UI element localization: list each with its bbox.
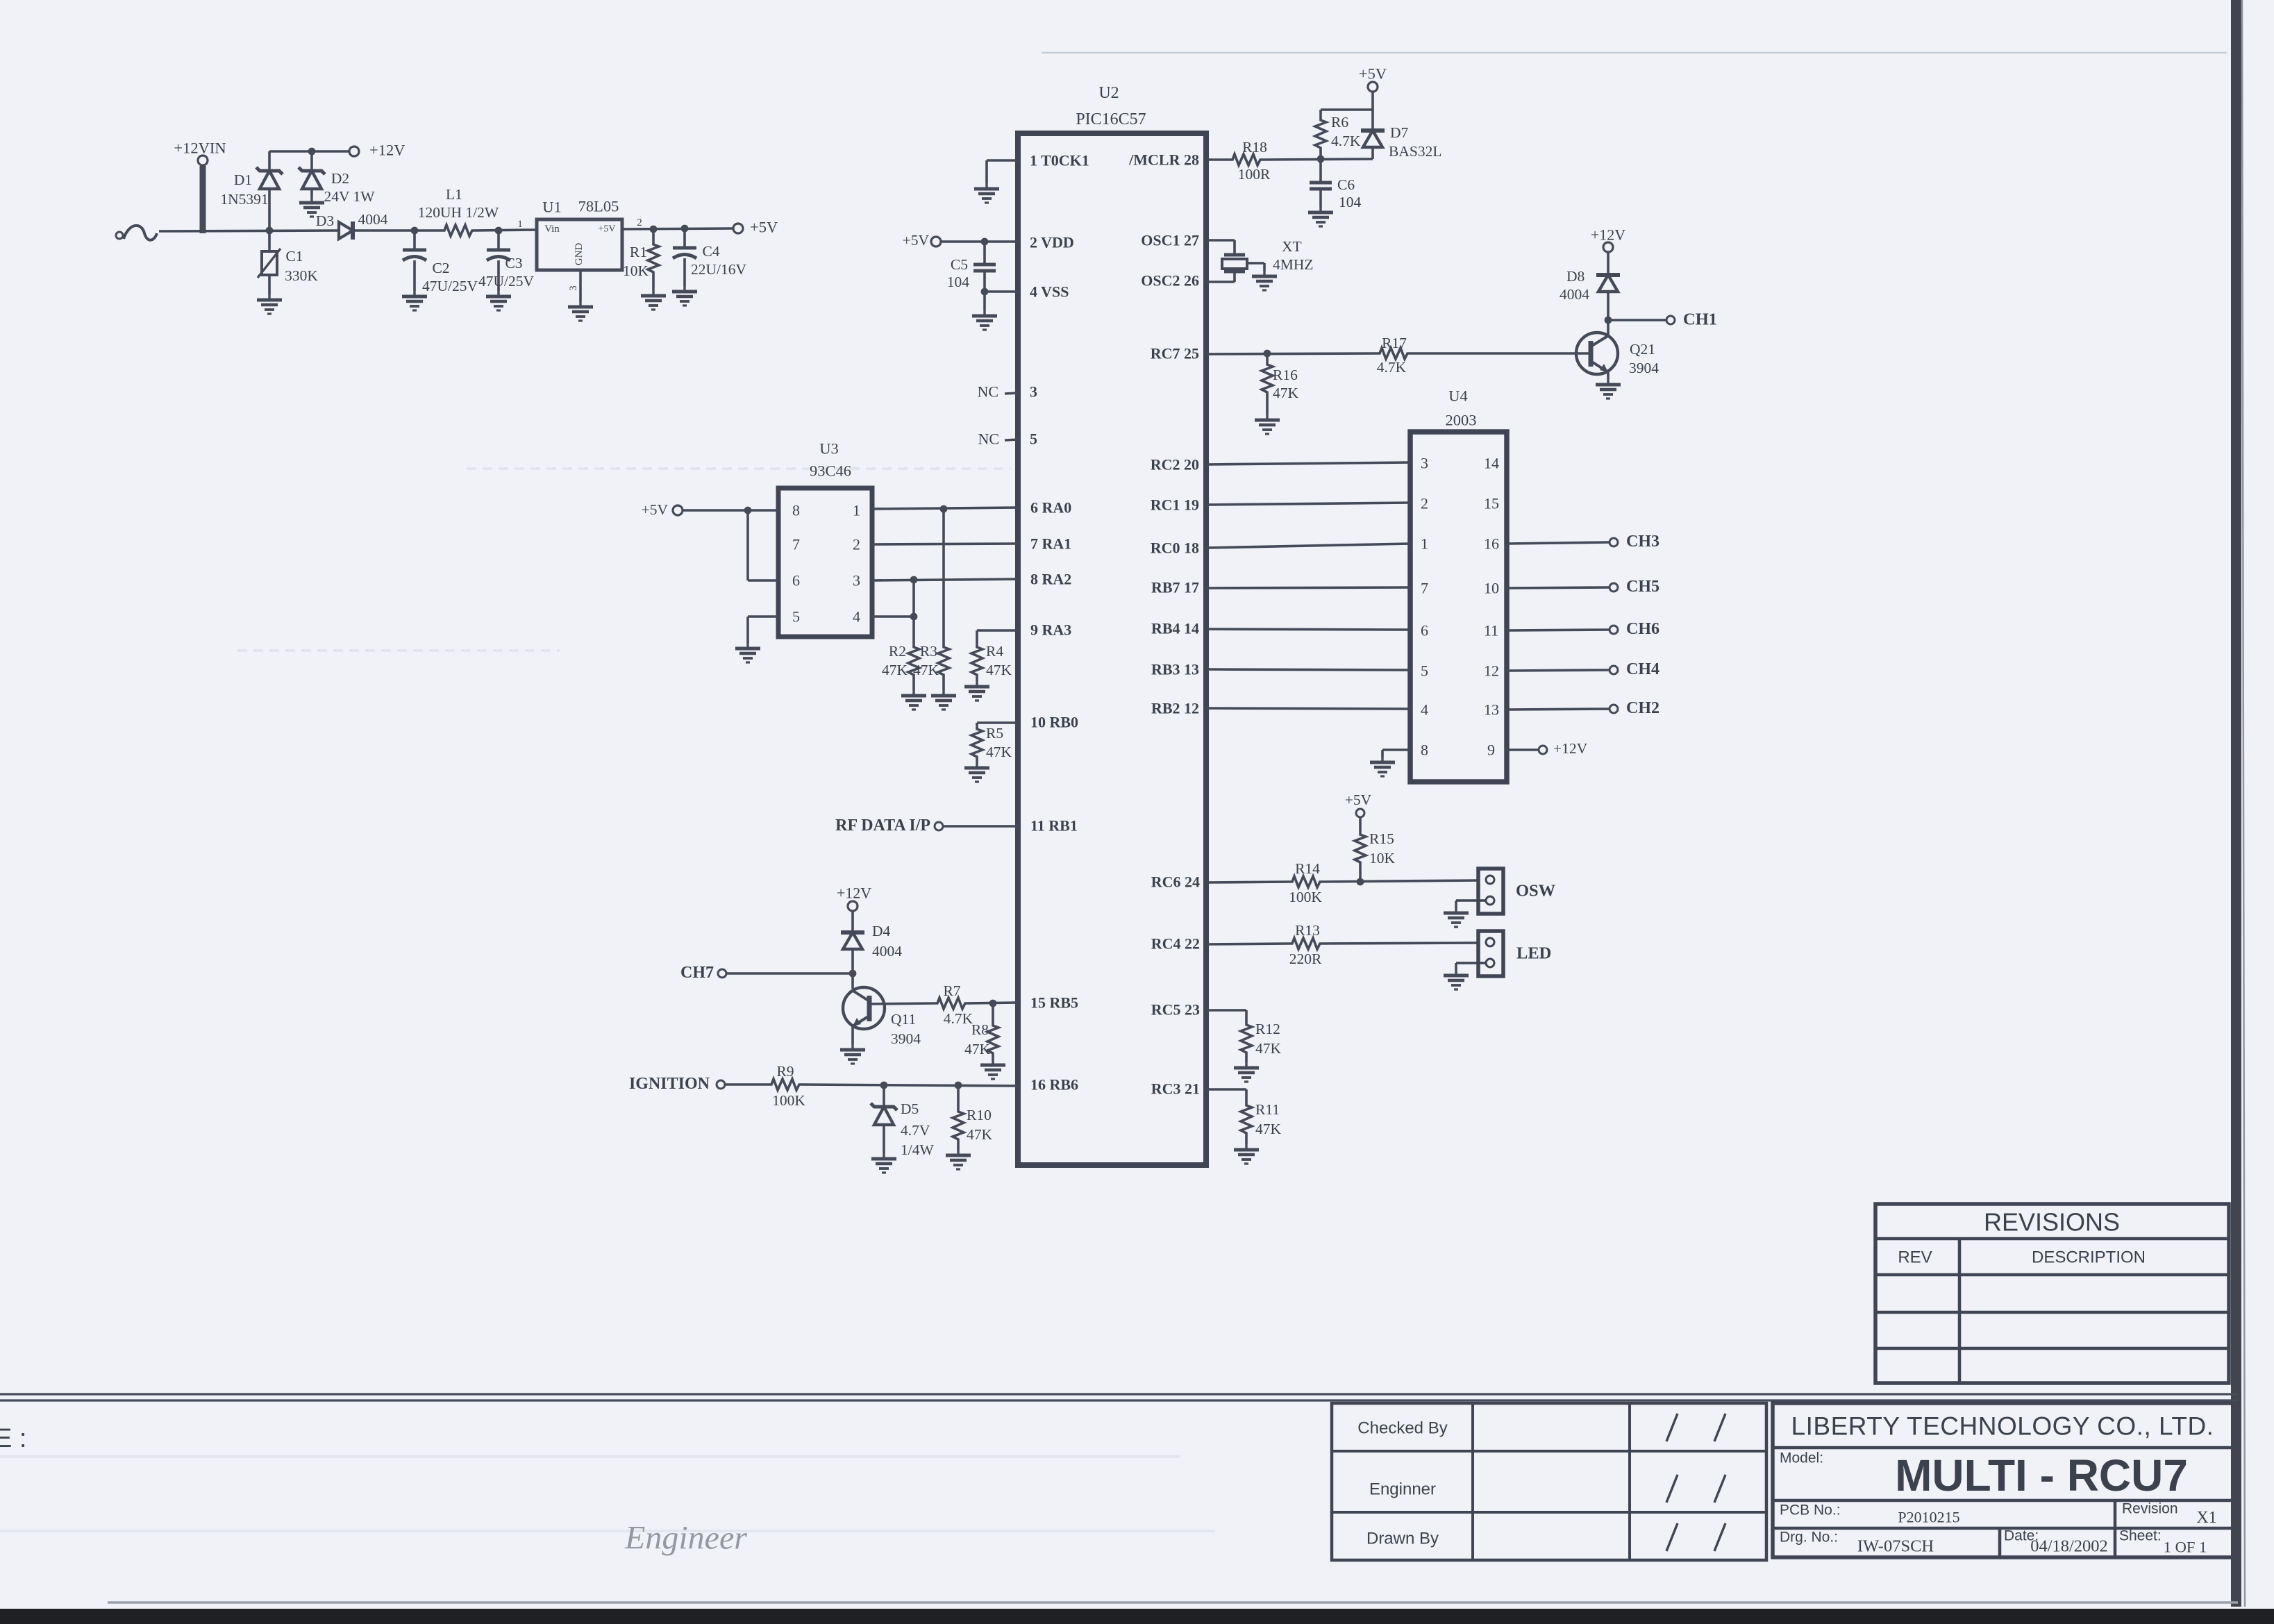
svg-text:+5V: +5V bbox=[903, 232, 930, 249]
svg-text:PCB No.:: PCB No.: bbox=[1780, 1502, 1841, 1518]
svg-text:R6: R6 bbox=[1331, 114, 1348, 131]
svg-text:RC3 21: RC3 21 bbox=[1151, 1080, 1200, 1098]
svg-text:120UH 1/2W: 120UH 1/2W bbox=[418, 204, 499, 221]
svg-text:Drg. No.:: Drg. No.: bbox=[1780, 1530, 1838, 1546]
wire +5V down bbox=[1371, 92, 1374, 131]
node R8 junction bbox=[989, 1000, 997, 1007]
wire MCLR to R18 bbox=[1206, 158, 1230, 161]
svg-text:REV: REV bbox=[1898, 1248, 1932, 1267]
ground R5 bbox=[964, 762, 989, 782]
svg-text:PIC16C57: PIC16C57 bbox=[1076, 110, 1146, 128]
svg-text:E :: E : bbox=[0, 1424, 26, 1453]
ground R12 bbox=[1234, 1062, 1259, 1082]
svg-text:1: 1 bbox=[1421, 535, 1428, 553]
svg-text:IGNITION: IGNITION bbox=[629, 1075, 710, 1093]
ground XT bbox=[1252, 271, 1277, 290]
ground U3 pin5 bbox=[735, 643, 760, 662]
resistor R17 4.7K bbox=[1377, 335, 1410, 376]
svg-text:04/18/2002: 04/18/2002 bbox=[2030, 1537, 2108, 1556]
resistor R6 4.7K bbox=[1315, 110, 1361, 159]
wire U3 pin4 to R2 bbox=[872, 615, 914, 618]
svg-text:10K: 10K bbox=[1369, 850, 1396, 867]
varistor C1 330K bbox=[258, 231, 281, 294]
svg-text:8: 8 bbox=[1421, 742, 1428, 759]
svg-text:16 RB6: 16 RB6 bbox=[1030, 1076, 1078, 1094]
node R16 junction bbox=[1264, 350, 1271, 358]
inductor L1 120UH 1/2W bbox=[418, 186, 499, 236]
svg-text:3: 3 bbox=[853, 572, 860, 589]
node +5V terminal (U3) bbox=[673, 505, 683, 515]
svg-text:1: 1 bbox=[517, 219, 523, 230]
resistor R10 47K bbox=[953, 1085, 993, 1150]
node +12V terminal (U4 pin9) bbox=[1539, 746, 1547, 754]
svg-text:MULTI - RCU7: MULTI - RCU7 bbox=[1895, 1450, 2188, 1500]
wire pin5 to ground bbox=[748, 617, 778, 643]
wire RC1 to U4 pin2 bbox=[1206, 503, 1410, 505]
diode D4 4004 bbox=[841, 911, 902, 989]
svg-text:14: 14 bbox=[1484, 455, 1499, 472]
wire CH7 to collector bbox=[726, 972, 853, 975]
resistor R4 47K bbox=[971, 630, 1012, 681]
svg-text:R12: R12 bbox=[1255, 1021, 1280, 1037]
svg-text:OSC2 26: OSC2 26 bbox=[1141, 272, 1199, 290]
svg-text:C1: C1 bbox=[285, 248, 303, 265]
svg-text:4.7K: 4.7K bbox=[944, 1010, 973, 1027]
svg-text:LIBERTY TECHNOLOGY CO., LTD.: LIBERTY TECHNOLOGY CO., LTD. bbox=[1791, 1412, 2214, 1441]
node pin4 junction bbox=[910, 613, 918, 621]
ground U4 pin8 bbox=[1370, 757, 1395, 776]
svg-text:2: 2 bbox=[1421, 495, 1428, 512]
svg-text:93C46: 93C46 bbox=[810, 462, 851, 480]
svg-text:9 RA3: 9 RA3 bbox=[1030, 621, 1071, 639]
svg-text:CH2: CH2 bbox=[1626, 699, 1659, 717]
svg-text:3904: 3904 bbox=[891, 1030, 921, 1047]
svg-text:R13: R13 bbox=[1295, 922, 1320, 939]
svg-text:47U/25V: 47U/25V bbox=[422, 278, 478, 294]
svg-text:47K: 47K bbox=[1255, 1121, 1282, 1137]
wire RC0 to U4 pin1 bbox=[1206, 544, 1410, 548]
ground R11 bbox=[1234, 1144, 1259, 1164]
left signature table bbox=[1332, 1403, 1766, 1560]
svg-text:+12V: +12V bbox=[369, 142, 405, 159]
svg-text:4004: 4004 bbox=[1560, 286, 1589, 303]
svg-text:R17: R17 bbox=[1382, 335, 1407, 351]
svg-text:D7: D7 bbox=[1390, 124, 1409, 141]
svg-text:220R: 220R bbox=[1289, 951, 1322, 967]
svg-text:+5V: +5V bbox=[750, 219, 778, 236]
ground C3 bbox=[486, 291, 511, 310]
node +5V terminal (R15) bbox=[1356, 809, 1364, 817]
svg-text:+5V: +5V bbox=[642, 501, 669, 518]
pin 9 RA3 stub bbox=[977, 621, 1071, 639]
svg-text:47U/25V: 47U/25V bbox=[478, 273, 535, 290]
node C4 junction bbox=[681, 225, 689, 233]
svg-text:R15: R15 bbox=[1369, 830, 1394, 847]
svg-text:+12V: +12V bbox=[837, 885, 871, 902]
svg-text:OSW: OSW bbox=[1516, 882, 1556, 901]
resistor R11 47K bbox=[1241, 1101, 1282, 1144]
capacitor C6 104 bbox=[1310, 159, 1362, 210]
svg-text:6: 6 bbox=[792, 572, 800, 589]
ground R10 bbox=[946, 1150, 971, 1169]
svg-text:U4: U4 bbox=[1448, 387, 1468, 405]
diode D2 24V 1W (zener) bbox=[299, 151, 375, 205]
svg-text:+12V: +12V bbox=[1553, 740, 1588, 757]
connector OSW bbox=[1456, 869, 1503, 914]
ground C1 bbox=[257, 294, 282, 314]
node VSS junction bbox=[981, 288, 989, 296]
regulator U1 78L05 bbox=[517, 198, 642, 291]
pin 26 OSC2 bbox=[1141, 271, 1235, 290]
svg-text:8 RA2: 8 RA2 bbox=[1030, 571, 1071, 588]
resistor R1 10K bbox=[623, 229, 659, 290]
svg-text:47K: 47K bbox=[986, 744, 1012, 760]
svg-text:3: 3 bbox=[1421, 455, 1428, 472]
ground R1 bbox=[641, 290, 666, 310]
node R3 top junction bbox=[940, 505, 948, 513]
svg-text:D3: D3 bbox=[316, 212, 334, 229]
wire CH3 bbox=[1507, 542, 1609, 544]
node U3 supply junction bbox=[744, 507, 752, 514]
svg-text:15: 15 bbox=[1484, 495, 1499, 512]
GHOST BLEED-THROUGH MARKS bbox=[0, 469, 1215, 1557]
ground Q11 emitter bbox=[840, 1044, 865, 1064]
node CH2 terminal bbox=[1610, 705, 1618, 713]
svg-text:R11: R11 bbox=[1255, 1101, 1280, 1118]
svg-text:104: 104 bbox=[1339, 194, 1362, 210]
svg-text:Engineer: Engineer bbox=[624, 1520, 747, 1557]
svg-text:3: 3 bbox=[568, 285, 579, 291]
svg-text:11: 11 bbox=[1484, 622, 1498, 639]
svg-text:D2: D2 bbox=[331, 170, 349, 187]
svg-text:24V 1W: 24V 1W bbox=[324, 188, 375, 205]
node main rail / D1 junction bbox=[266, 227, 274, 235]
svg-text:RC1 19: RC1 19 bbox=[1151, 496, 1199, 514]
svg-text:RC7 25: RC7 25 bbox=[1151, 345, 1199, 362]
svg-text:RB2 12: RB2 12 bbox=[1151, 700, 1199, 717]
svg-text:C5: C5 bbox=[951, 256, 968, 273]
diode D3 4004 bbox=[339, 221, 353, 240]
node R1 junction bbox=[650, 226, 658, 233]
svg-text:DESCRIPTION: DESCRIPTION bbox=[2032, 1248, 2146, 1267]
wire rail D3 to U1 bbox=[353, 229, 442, 232]
svg-text:1: 1 bbox=[853, 502, 860, 519]
node R6/C6 junction bbox=[1317, 156, 1325, 163]
resistor R7 4.7K bbox=[935, 982, 973, 1027]
diode D7 BAS32L bbox=[1361, 124, 1441, 160]
wire L1 to U1 bbox=[474, 230, 537, 231]
node R10 junction bbox=[955, 1082, 962, 1089]
svg-text:R4: R4 bbox=[986, 643, 1003, 660]
node R15/R14 junction bbox=[1357, 878, 1364, 886]
svg-text:RB3 13: RB3 13 bbox=[1151, 661, 1199, 678]
node CH1 junction bbox=[1605, 317, 1612, 324]
svg-text:10 RB0: 10 RB0 bbox=[1030, 714, 1078, 731]
node +5V terminal (VDD) bbox=[931, 237, 941, 246]
svg-text:4004: 4004 bbox=[872, 943, 902, 960]
svg-text:16: 16 bbox=[1484, 535, 1499, 553]
svg-text:NC: NC bbox=[977, 383, 998, 401]
svg-text:P2010215: P2010215 bbox=[1898, 1509, 1959, 1526]
svg-text:U2: U2 bbox=[1098, 84, 1119, 102]
capacitor C4 22U/16V bbox=[673, 228, 746, 286]
resistor R16 47K bbox=[1262, 353, 1299, 415]
ground LED bbox=[1444, 970, 1469, 989]
transistor Q11 3904 bbox=[843, 987, 885, 1044]
wire U3 pin3 to RA2 bbox=[872, 579, 1018, 580]
svg-text:+5V: +5V bbox=[1345, 792, 1372, 808]
svg-text:Q21: Q21 bbox=[1630, 341, 1655, 358]
SHEET BORDER (title strip top, double line) bbox=[0, 1394, 2238, 1400]
wire RB4 to U4 pin6 bbox=[1206, 629, 1410, 630]
node CH7/D4 junction bbox=[849, 970, 857, 978]
pin 4 VSS bbox=[985, 283, 1069, 311]
transistor Q21 3904 bbox=[1576, 320, 1618, 379]
node CH6 terminal bbox=[1610, 626, 1618, 634]
node C2 junction bbox=[411, 227, 419, 235]
input lead curl bbox=[116, 226, 157, 240]
svg-text:RC2 20: RC2 20 bbox=[1151, 456, 1199, 474]
resistor R14 100K bbox=[1289, 860, 1322, 905]
wire R18 to node bbox=[1262, 159, 1373, 160]
ground Q21 emitter bbox=[1596, 379, 1621, 399]
ground pin1 bbox=[974, 183, 999, 203]
wire U1 output rail bbox=[622, 228, 733, 229]
svg-text:XT: XT bbox=[1282, 238, 1302, 255]
svg-text:Model:: Model: bbox=[1780, 1450, 1823, 1466]
connector LED bbox=[1456, 931, 1503, 976]
svg-text:RC6 24: RC6 24 bbox=[1151, 873, 1200, 891]
svg-text:CH4: CH4 bbox=[1626, 660, 1659, 678]
svg-text:330K: 330K bbox=[285, 267, 318, 284]
svg-text:5: 5 bbox=[1421, 662, 1428, 680]
svg-text:R3: R3 bbox=[920, 643, 937, 660]
ground R16 bbox=[1255, 415, 1280, 434]
diode D1 1N5391 (zener) bbox=[220, 151, 283, 231]
svg-text:X1: X1 bbox=[2196, 1509, 2216, 1527]
pin 5 NC bbox=[978, 430, 1037, 448]
wire RC2 to U4 pin3 bbox=[1206, 462, 1410, 464]
capacitor C2 47U/25V bbox=[403, 231, 478, 294]
svg-text:RC5 23: RC5 23 bbox=[1151, 1001, 1200, 1019]
resistor R9 100K bbox=[769, 1063, 805, 1109]
svg-text:R18: R18 bbox=[1242, 139, 1267, 156]
svg-text:6 RA0: 6 RA0 bbox=[1030, 499, 1071, 517]
svg-text:CH1: CH1 bbox=[1683, 310, 1717, 329]
wire R17 to Q21 base bbox=[1410, 352, 1591, 355]
svg-text:4.7K: 4.7K bbox=[1331, 133, 1361, 149]
wire RF DATA to RB1 bbox=[943, 825, 1018, 828]
svg-text:REVISIONS: REVISIONS bbox=[1984, 1208, 2120, 1237]
node C5 top junction bbox=[981, 238, 989, 246]
wire R13 to LED bbox=[1322, 943, 1478, 944]
wire RB3 to U4 pin5 bbox=[1206, 669, 1410, 670]
svg-text:Checked By: Checked By bbox=[1357, 1419, 1447, 1438]
capacitor C3 47U/25V bbox=[478, 231, 535, 291]
svg-text:CH3: CH3 bbox=[1626, 533, 1659, 551]
svg-text:LED: LED bbox=[1516, 944, 1551, 963]
ic U4 2003 body bbox=[1410, 387, 1507, 782]
node CH5 terminal bbox=[1610, 583, 1618, 592]
wire main rail left bbox=[159, 231, 339, 231]
svg-text:7 RA1: 7 RA1 bbox=[1030, 535, 1071, 553]
svg-text:13: 13 bbox=[1484, 701, 1499, 719]
pin 3 NC bbox=[977, 383, 1037, 401]
svg-text:2: 2 bbox=[853, 536, 860, 553]
wire +5V to U3 pin8 bbox=[683, 509, 778, 512]
wire RC7 row bbox=[1206, 353, 1378, 354]
ic U2 PIC16C57 body bbox=[1018, 84, 1206, 1165]
pin 27 OSC1 bbox=[1141, 232, 1235, 256]
svg-text:1N5391: 1N5391 bbox=[220, 191, 268, 208]
wire RC6 to R14 bbox=[1206, 882, 1290, 882]
resistor R13 220R bbox=[1289, 922, 1322, 967]
node +12VIN terminal bbox=[198, 156, 208, 165]
resistor R15 10K bbox=[1355, 817, 1396, 882]
node +5V terminal (MCLR pullup) bbox=[1368, 82, 1378, 92]
svg-text:Revision: Revision bbox=[2122, 1501, 2178, 1517]
wire RB2 to U4 pin4 bbox=[1206, 708, 1410, 709]
wire U3 pin1 to RA0 bbox=[872, 508, 1018, 509]
node D2 top junction bbox=[308, 148, 316, 156]
svg-text:3904: 3904 bbox=[1629, 360, 1659, 376]
resistor R18 100R bbox=[1230, 139, 1271, 183]
svg-text:/MCLR 28: /MCLR 28 bbox=[1128, 151, 1199, 169]
wire R9 to RB6 bbox=[801, 1085, 1018, 1086]
svg-text:R1: R1 bbox=[630, 244, 647, 260]
wire U1 GND stem bbox=[579, 270, 582, 301]
wire +5V to R6 top bbox=[1321, 108, 1373, 111]
svg-text:4 VSS: 4 VSS bbox=[1030, 283, 1069, 301]
ground D2 bbox=[299, 197, 324, 217]
wire RC3 stub bbox=[1206, 1089, 1246, 1103]
wire RC4 to R13 bbox=[1206, 944, 1290, 944]
ground R8 bbox=[980, 1060, 1005, 1079]
wire CH2 bbox=[1507, 709, 1609, 710]
svg-text:47K: 47K bbox=[1273, 385, 1299, 401]
svg-text:47K: 47K bbox=[1255, 1040, 1282, 1057]
svg-text:47K: 47K bbox=[964, 1041, 991, 1057]
svg-text:C6: C6 bbox=[1337, 176, 1355, 193]
svg-text:47K: 47K bbox=[882, 662, 908, 678]
node R2 top junction bbox=[910, 576, 918, 584]
svg-text:CH6: CH6 bbox=[1626, 620, 1659, 638]
svg-text:4004: 4004 bbox=[358, 211, 388, 228]
svg-text:RF DATA I/P: RF DATA I/P bbox=[835, 817, 930, 835]
diode D8 4004 bbox=[1560, 252, 1620, 320]
svg-text:+5V: +5V bbox=[1359, 65, 1387, 83]
svg-text:104: 104 bbox=[947, 274, 970, 290]
svg-text:100K: 100K bbox=[772, 1092, 805, 1109]
ground C2 bbox=[402, 291, 427, 310]
ground U1 bbox=[568, 301, 593, 321]
svg-text:IW-07SCH: IW-07SCH bbox=[1857, 1537, 1934, 1556]
wire IGNITION to R9 bbox=[725, 1083, 769, 1086]
node C3 junction bbox=[495, 227, 503, 235]
node CH3 terminal bbox=[1610, 538, 1618, 546]
wire U3 pin2 to RA1 bbox=[872, 544, 1018, 544]
svg-text:12: 12 bbox=[1484, 662, 1499, 680]
svg-text:7: 7 bbox=[792, 536, 800, 553]
svg-text:R10: R10 bbox=[967, 1107, 992, 1123]
svg-text:78L05: 78L05 bbox=[578, 198, 619, 215]
company block bbox=[1773, 1403, 2237, 1557]
svg-text:D5: D5 bbox=[901, 1100, 919, 1117]
svg-text:+12VIN: +12VIN bbox=[174, 140, 226, 157]
wire U4 pin9 +12V bbox=[1507, 748, 1538, 751]
pin 10 RB0 stub bbox=[977, 714, 1078, 731]
svg-text:15 RB5: 15 RB5 bbox=[1030, 994, 1078, 1012]
resistor R12 47K bbox=[1241, 1021, 1282, 1062]
wire U4 pin8 to ground bbox=[1382, 750, 1410, 757]
svg-text:5: 5 bbox=[792, 608, 800, 626]
svg-text:Drawn By: Drawn By bbox=[1366, 1530, 1439, 1548]
svg-text:2: 2 bbox=[637, 217, 642, 228]
svg-text:U3: U3 bbox=[819, 440, 839, 458]
svg-text:4: 4 bbox=[1421, 701, 1428, 719]
node CH1 terminal bbox=[1666, 316, 1675, 324]
svg-text:+5V: +5V bbox=[598, 224, 615, 235]
svg-text:1 T0CK1: 1 T0CK1 bbox=[1030, 152, 1089, 169]
svg-text:C2: C2 bbox=[432, 260, 449, 276]
ground R4 bbox=[964, 681, 989, 701]
crystal XT 4MHZ bbox=[1222, 255, 1264, 271]
svg-text:D4: D4 bbox=[872, 923, 891, 939]
svg-text:OSC1 27: OSC1 27 bbox=[1141, 232, 1199, 249]
svg-text:L1: L1 bbox=[446, 186, 462, 203]
svg-text:RB4 14: RB4 14 bbox=[1151, 620, 1199, 637]
wire Q11 base to R7 bbox=[869, 1003, 935, 1004]
wire RB7 to U4 pin7 bbox=[1206, 587, 1410, 588]
ic U3 93C46 body bbox=[778, 440, 872, 637]
resistor R5 47K bbox=[971, 723, 1012, 762]
svg-text:1 OF 1: 1 OF 1 bbox=[2164, 1539, 2207, 1556]
svg-text:CH5: CH5 bbox=[1626, 578, 1659, 596]
svg-text:Enginner: Enginner bbox=[1369, 1480, 1436, 1499]
svg-text:C3: C3 bbox=[505, 255, 522, 271]
ground R2 bbox=[901, 690, 926, 710]
svg-text:47K: 47K bbox=[967, 1126, 993, 1143]
wire +12VIN thick drop bbox=[200, 166, 206, 233]
svg-text:4.7V: 4.7V bbox=[901, 1122, 930, 1139]
svg-text:D8: D8 bbox=[1566, 268, 1585, 285]
svg-text:2 VDD: 2 VDD bbox=[1030, 234, 1074, 251]
svg-text:4.7K: 4.7K bbox=[1377, 359, 1407, 376]
svg-text:C4: C4 bbox=[702, 243, 719, 260]
svg-text:BAS32L: BAS32L bbox=[1389, 143, 1441, 160]
capacitor C5 104 bbox=[947, 242, 996, 292]
svg-text:100K: 100K bbox=[1289, 889, 1322, 905]
svg-text:9: 9 bbox=[1487, 742, 1495, 759]
wire CH1 bbox=[1608, 319, 1666, 321]
svg-text:4MHZ: 4MHZ bbox=[1273, 256, 1314, 273]
wire R7 to RB5 bbox=[967, 1003, 1018, 1003]
svg-text:6: 6 bbox=[1421, 622, 1428, 639]
svg-text:5: 5 bbox=[1030, 430, 1037, 448]
resistor R8 47K bbox=[964, 1003, 998, 1060]
wire CH5 bbox=[1507, 587, 1609, 588]
svg-text:11 RB1: 11 RB1 bbox=[1030, 817, 1078, 835]
node +12V terminal (D4) bbox=[848, 901, 858, 911]
node +12V terminal bbox=[349, 147, 359, 156]
svg-text:100R: 100R bbox=[1238, 166, 1271, 183]
wire RC5 stub bbox=[1206, 1010, 1246, 1023]
svg-text:47K: 47K bbox=[913, 662, 939, 678]
svg-text:4: 4 bbox=[853, 608, 860, 626]
ground D5 bbox=[871, 1153, 896, 1173]
svg-text:GND: GND bbox=[574, 243, 585, 266]
ground R3 bbox=[931, 690, 956, 710]
